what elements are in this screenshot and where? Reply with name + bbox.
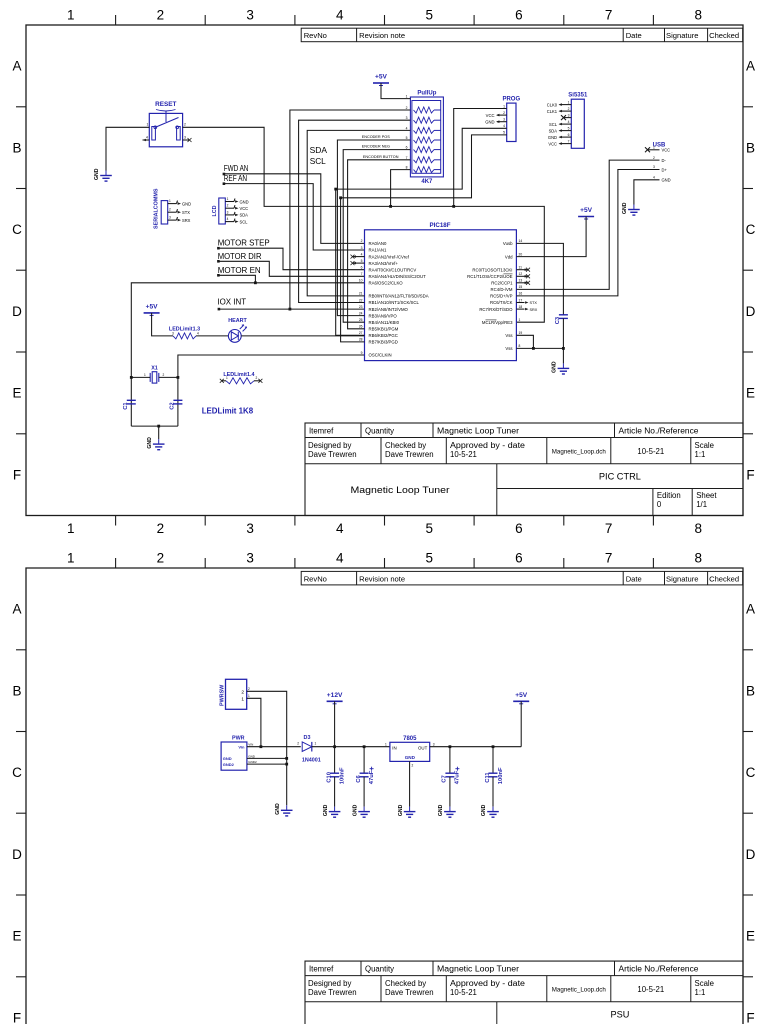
svg-text:Si5351: Si5351 bbox=[568, 93, 588, 99]
svg-text:VCC: VCC bbox=[662, 148, 671, 153]
svg-text:C1: C1 bbox=[123, 402, 129, 410]
svg-text:Vusb: Vusb bbox=[503, 241, 513, 246]
svg-text:Date: Date bbox=[626, 574, 642, 583]
svg-text:2: 2 bbox=[503, 111, 505, 115]
svg-text:4: 4 bbox=[146, 136, 148, 140]
svg-text:Article No./Reference: Article No./Reference bbox=[619, 964, 699, 973]
wire bbox=[492, 777, 494, 807]
svg-text:GND2: GND2 bbox=[248, 760, 257, 764]
svg-text:3: 3 bbox=[246, 8, 254, 23]
wire bbox=[430, 746, 522, 748]
svg-text:3: 3 bbox=[503, 118, 505, 122]
svg-text:RA5/AN4/HLVDIN/SS/C2OUT: RA5/AN4/HLVDIN/SS/C2OUT bbox=[369, 274, 427, 279]
svg-text:A: A bbox=[12, 59, 21, 74]
capacitor C7 bbox=[445, 772, 454, 774]
wire bbox=[334, 747, 336, 774]
svg-text:MOTOR EN: MOTOR EN bbox=[218, 265, 261, 275]
svg-text:LEDLimit 1K8: LEDLimit 1K8 bbox=[202, 405, 254, 415]
svg-text:2: 2 bbox=[241, 689, 244, 695]
svg-text:5: 5 bbox=[426, 521, 434, 536]
wire bbox=[241, 335, 364, 337]
svg-text:10-5-21: 10-5-21 bbox=[637, 985, 664, 994]
svg-text:GND2: GND2 bbox=[223, 762, 235, 767]
junction bbox=[177, 376, 180, 379]
wire bbox=[290, 110, 411, 309]
svg-text:GND: GND bbox=[248, 754, 256, 758]
svg-text:22: 22 bbox=[359, 298, 363, 302]
svg-text:A: A bbox=[746, 602, 755, 617]
svg-text:D: D bbox=[12, 304, 22, 319]
svg-text:RevNo: RevNo bbox=[304, 31, 327, 40]
svg-text:4: 4 bbox=[336, 521, 344, 536]
svg-text:7: 7 bbox=[406, 156, 408, 160]
svg-text:RC7/RX/DT/SDO: RC7/RX/DT/SDO bbox=[479, 307, 513, 312]
svg-text:C11: C11 bbox=[485, 772, 491, 783]
wire bbox=[516, 170, 659, 296]
junction bbox=[449, 745, 452, 748]
resistor network PullUp 4K7 bbox=[406, 90, 444, 185]
pin stub bbox=[143, 139, 150, 142]
svg-text:+5V: +5V bbox=[515, 692, 528, 699]
svg-text:RB4/AN11/KBI0: RB4/AN11/KBI0 bbox=[369, 320, 400, 325]
svg-text:4: 4 bbox=[227, 217, 229, 221]
ground bbox=[275, 803, 293, 816]
wire bbox=[218, 261, 364, 276]
svg-text:5: 5 bbox=[406, 136, 408, 140]
svg-text:RB5/KBI1/PGM: RB5/KBI1/PGM bbox=[369, 327, 399, 332]
svg-text:7: 7 bbox=[568, 139, 570, 143]
wire bbox=[492, 747, 494, 774]
junction bbox=[157, 425, 160, 428]
junction bbox=[289, 308, 292, 311]
svg-text:1: 1 bbox=[248, 694, 250, 698]
svg-text:1: 1 bbox=[169, 199, 171, 203]
svg-text:2: 2 bbox=[169, 208, 171, 212]
wire bbox=[334, 701, 336, 746]
wire bbox=[363, 747, 365, 774]
junction bbox=[363, 745, 366, 748]
svg-text:1: 1 bbox=[227, 197, 229, 201]
svg-text:100nF: 100nF bbox=[498, 767, 504, 784]
svg-text:SDA: SDA bbox=[240, 213, 249, 218]
junction bbox=[334, 188, 337, 191]
ground bbox=[481, 804, 499, 817]
svg-text:1: 1 bbox=[385, 743, 387, 747]
svg-text:2: 2 bbox=[412, 764, 414, 768]
svg-text:SCL: SCL bbox=[310, 156, 326, 166]
wire bbox=[183, 127, 545, 322]
svg-text:2: 2 bbox=[361, 239, 363, 243]
svg-text:1/1: 1/1 bbox=[696, 500, 707, 509]
svg-text:IOX INT: IOX INT bbox=[217, 297, 246, 307]
svg-text:2: 2 bbox=[184, 123, 186, 127]
svg-text:5: 5 bbox=[568, 126, 570, 130]
svg-text:RC1/T1OSI/CCP2/UOE: RC1/T1OSI/CCP2/UOE bbox=[467, 274, 513, 279]
svg-text:1: 1 bbox=[241, 696, 244, 702]
ground bbox=[622, 202, 640, 215]
capacitor C2 bbox=[173, 399, 182, 401]
svg-text:7: 7 bbox=[605, 551, 613, 566]
junction bbox=[333, 745, 336, 748]
svg-text:7: 7 bbox=[605, 8, 613, 23]
connector SERIALCOMMS bbox=[154, 188, 192, 229]
connector LCD bbox=[212, 197, 249, 224]
svg-text:3: 3 bbox=[433, 743, 435, 747]
svg-text:47uF: 47uF bbox=[455, 770, 461, 784]
svg-text:3: 3 bbox=[227, 210, 229, 214]
svg-text:Article No./Reference: Article No./Reference bbox=[619, 426, 699, 435]
svg-text:X1: X1 bbox=[151, 365, 158, 371]
svg-text:4: 4 bbox=[336, 551, 344, 566]
svg-text:C10: C10 bbox=[326, 772, 332, 783]
svg-text:E: E bbox=[746, 386, 755, 401]
svg-text:8: 8 bbox=[694, 551, 702, 566]
svg-text:1: 1 bbox=[67, 551, 75, 566]
wire bbox=[343, 150, 410, 323]
revision table bbox=[301, 571, 743, 585]
svg-text:Approved by - date: Approved by - date bbox=[450, 979, 525, 988]
svg-text:GND: GND bbox=[182, 201, 191, 206]
svg-text:Dave Trewren: Dave Trewren bbox=[385, 450, 434, 459]
wire bbox=[312, 746, 390, 748]
svg-text:SCL: SCL bbox=[240, 219, 249, 224]
svg-text:PIC CTRL: PIC CTRL bbox=[599, 471, 641, 481]
svg-text:28: 28 bbox=[359, 338, 363, 342]
wire bbox=[409, 761, 411, 806]
svg-text:Checked by: Checked by bbox=[385, 979, 426, 988]
svg-text:SDA: SDA bbox=[310, 145, 328, 155]
svg-text:5: 5 bbox=[361, 259, 363, 263]
wire bbox=[634, 180, 660, 205]
svg-text:GND: GND bbox=[548, 135, 557, 140]
wire bbox=[106, 127, 149, 170]
svg-text:VCC: VCC bbox=[548, 141, 557, 146]
svg-text:Approved by - date: Approved by - date bbox=[450, 441, 525, 450]
svg-text:Revision note: Revision note bbox=[359, 574, 405, 583]
svg-text:2: 2 bbox=[157, 551, 165, 566]
svg-text:Vss: Vss bbox=[505, 333, 512, 338]
svg-text:Date: Date bbox=[626, 31, 642, 40]
junction bbox=[452, 205, 455, 208]
svg-text:Checked: Checked bbox=[709, 574, 739, 583]
connector PWRSW bbox=[220, 679, 251, 709]
wire bbox=[516, 160, 659, 289]
svg-text:3: 3 bbox=[406, 116, 408, 120]
svg-text:7805: 7805 bbox=[403, 736, 417, 742]
svg-text:Dave Trewren: Dave Trewren bbox=[385, 988, 434, 997]
svg-text:Revision note: Revision note bbox=[359, 31, 405, 40]
svg-text:5: 5 bbox=[426, 8, 434, 23]
svg-text:1: 1 bbox=[226, 376, 228, 380]
svg-text:6: 6 bbox=[515, 551, 523, 566]
wire bbox=[158, 426, 160, 439]
wire bbox=[152, 313, 173, 336]
svg-text:6: 6 bbox=[515, 521, 523, 536]
svg-text:Signature: Signature bbox=[666, 574, 699, 583]
svg-text:1: 1 bbox=[67, 8, 75, 23]
svg-text:21: 21 bbox=[359, 292, 363, 296]
svg-text:6: 6 bbox=[515, 8, 523, 23]
svg-text:RB0/INT0/AN12/FLT0/SDI/SDA: RB0/INT0/AN12/FLT0/SDI/SDA bbox=[369, 294, 429, 299]
junction bbox=[389, 205, 392, 208]
svg-text:GND: GND bbox=[405, 755, 416, 760]
svg-text:GND: GND bbox=[485, 120, 494, 125]
connector USB bbox=[645, 142, 671, 182]
wire bbox=[247, 698, 261, 746]
svg-text:10-5-21: 10-5-21 bbox=[637, 447, 664, 456]
svg-text:RB2/AN8/INT2/VMO: RB2/AN8/INT2/VMO bbox=[369, 307, 409, 312]
wire bbox=[196, 335, 229, 337]
svg-text:SERIALCOMMS: SERIALCOMMS bbox=[154, 188, 160, 229]
svg-text:PSU: PSU bbox=[610, 1009, 629, 1019]
svg-text:12: 12 bbox=[519, 272, 523, 276]
svg-text:Vin: Vin bbox=[238, 745, 245, 750]
svg-text:2: 2 bbox=[568, 107, 570, 111]
svg-text:15: 15 bbox=[519, 285, 523, 289]
svg-text:B: B bbox=[746, 140, 755, 155]
svg-text:IN: IN bbox=[392, 745, 396, 750]
svg-text:RESET: RESET bbox=[155, 101, 176, 108]
svg-text:1: 1 bbox=[144, 373, 146, 377]
IC U1 PIC18F bbox=[359, 222, 523, 361]
junction bbox=[254, 281, 257, 284]
svg-text:PWR: PWR bbox=[232, 736, 245, 742]
wire bbox=[337, 140, 410, 316]
svg-text:RA2/AN2/Vref-/CVref: RA2/AN2/Vref-/CVref bbox=[369, 254, 410, 259]
svg-text:F: F bbox=[746, 467, 754, 482]
svg-text:2: 2 bbox=[256, 376, 258, 380]
svg-text:Scale: Scale bbox=[695, 979, 715, 988]
svg-text:SRX: SRX bbox=[530, 308, 538, 312]
svg-text:OSC/CLKIN: OSC/CLKIN bbox=[369, 353, 392, 358]
svg-text:6: 6 bbox=[406, 146, 408, 150]
svg-text:F: F bbox=[746, 1010, 754, 1024]
junction bbox=[130, 376, 133, 379]
connector PROG bbox=[502, 97, 520, 142]
wire bbox=[562, 318, 564, 363]
svg-text:RB3/AN9/VPO: RB3/AN9/VPO bbox=[369, 313, 398, 318]
wire bbox=[247, 691, 287, 805]
svg-text:2: 2 bbox=[227, 204, 229, 208]
svg-text:2: 2 bbox=[406, 106, 408, 110]
wire bbox=[247, 757, 287, 759]
svg-text:16: 16 bbox=[519, 292, 523, 296]
svg-text:Vdd: Vdd bbox=[505, 254, 513, 259]
wire bbox=[219, 308, 365, 310]
wire bbox=[307, 130, 410, 296]
svg-text:LEDLimit1.4: LEDLimit1.4 bbox=[223, 372, 254, 378]
svg-text:MOTOR DIR: MOTOR DIR bbox=[218, 251, 262, 261]
junction bbox=[532, 347, 535, 350]
page frame bbox=[26, 568, 743, 1024]
svg-text:0: 0 bbox=[657, 500, 662, 509]
svg-text:C: C bbox=[746, 222, 756, 237]
svg-text:10: 10 bbox=[359, 279, 363, 283]
svg-text:RB6/KBI2/PGC: RB6/KBI2/PGC bbox=[369, 333, 398, 338]
wire bbox=[516, 243, 563, 314]
svg-text:4: 4 bbox=[568, 120, 570, 124]
svg-text:27: 27 bbox=[359, 331, 363, 335]
wire bbox=[299, 120, 411, 302]
svg-text:RA1/AN1: RA1/AN1 bbox=[369, 248, 388, 253]
svg-text:2: 2 bbox=[157, 8, 165, 23]
svg-text:C: C bbox=[746, 765, 756, 780]
svg-text:F: F bbox=[13, 467, 21, 482]
ground bbox=[352, 804, 370, 817]
svg-text:RB1/AN10/INT1/SCK/SCL: RB1/AN10/INT1/SCK/SCL bbox=[369, 300, 420, 305]
svg-text:4: 4 bbox=[197, 332, 199, 336]
svg-text:A: A bbox=[12, 602, 21, 617]
svg-text:+5V: +5V bbox=[580, 207, 593, 214]
svg-text:1:1: 1:1 bbox=[695, 450, 706, 459]
svg-text:6: 6 bbox=[568, 133, 570, 137]
junction bbox=[562, 347, 565, 350]
ground bbox=[94, 168, 112, 181]
page frame bbox=[26, 25, 743, 516]
wire bbox=[336, 128, 507, 335]
LED HEART bbox=[228, 318, 247, 342]
svg-text:8: 8 bbox=[694, 8, 702, 23]
svg-text:PROG: PROG bbox=[502, 97, 520, 103]
svg-text:4: 4 bbox=[653, 176, 655, 180]
svg-text:Magnetic Loop Tuner: Magnetic Loop Tuner bbox=[437, 964, 519, 973]
svg-text:VCC: VCC bbox=[240, 206, 249, 211]
svg-text:14: 14 bbox=[519, 239, 523, 243]
svg-text:A: A bbox=[746, 59, 755, 74]
svg-text:D: D bbox=[12, 847, 22, 862]
svg-text:RC0/T1OSO/T13CKI: RC0/T1OSO/T13CKI bbox=[472, 267, 512, 272]
svg-text:+12V: +12V bbox=[327, 692, 343, 699]
ground bbox=[552, 361, 570, 374]
svg-text:24: 24 bbox=[359, 311, 363, 315]
svg-text:HEART: HEART bbox=[228, 318, 247, 324]
svg-text:1N4001: 1N4001 bbox=[302, 758, 321, 764]
svg-text:GND: GND bbox=[662, 178, 671, 183]
svg-text:LCD: LCD bbox=[212, 205, 218, 216]
svg-text:20: 20 bbox=[519, 252, 523, 256]
svg-text:Signature: Signature bbox=[666, 31, 699, 40]
svg-text:6: 6 bbox=[361, 266, 363, 270]
svg-text:B: B bbox=[12, 683, 21, 698]
svg-text:CLK0: CLK0 bbox=[547, 102, 558, 107]
svg-text:SCL: SCL bbox=[549, 122, 558, 127]
capacitor C10 bbox=[330, 772, 339, 774]
capacitor C1 bbox=[127, 399, 136, 401]
svg-text:47uF: 47uF bbox=[369, 770, 375, 784]
wire bbox=[218, 275, 255, 283]
svg-text:Edition: Edition bbox=[657, 491, 681, 500]
ground bbox=[438, 804, 456, 817]
svg-text:B: B bbox=[746, 683, 755, 698]
svg-text:MOTOR STEP: MOTOR STEP bbox=[218, 238, 270, 248]
svg-text:8: 8 bbox=[519, 344, 521, 348]
wire bbox=[516, 217, 586, 257]
svg-text:Quantity: Quantity bbox=[365, 964, 394, 973]
svg-text:Magnetic_Loop.dch: Magnetic_Loop.dch bbox=[552, 449, 607, 456]
svg-text:23: 23 bbox=[359, 305, 363, 309]
capacitor C11 bbox=[489, 772, 498, 774]
svg-text:C: C bbox=[12, 765, 22, 780]
svg-text:1: 1 bbox=[147, 123, 149, 127]
svg-text:3: 3 bbox=[568, 113, 570, 117]
svg-text:7: 7 bbox=[605, 521, 613, 536]
svg-text:RA4/T0CKI/C1OUT/RCV: RA4/T0CKI/C1OUT/RCV bbox=[369, 267, 417, 272]
wire bbox=[247, 746, 301, 748]
wire bbox=[334, 777, 336, 807]
svg-text:Designed by: Designed by bbox=[308, 441, 351, 450]
svg-text:RC2/CCP1: RC2/CCP1 bbox=[491, 281, 513, 286]
svg-text:2: 2 bbox=[653, 156, 655, 160]
wire bbox=[218, 248, 364, 270]
svg-text:1: 1 bbox=[503, 104, 505, 108]
svg-text:RB7/KBI3/PGD: RB7/KBI3/PGD bbox=[369, 340, 398, 345]
svg-text:RA3/AN3/Vref+: RA3/AN3/Vref+ bbox=[369, 261, 399, 266]
wire bbox=[224, 184, 365, 250]
svg-text:VIN: VIN bbox=[248, 743, 253, 747]
svg-text:3: 3 bbox=[361, 246, 363, 250]
svg-text:E: E bbox=[12, 386, 21, 401]
svg-text:3: 3 bbox=[653, 165, 655, 169]
svg-text:2: 2 bbox=[157, 521, 165, 536]
svg-text:Itemref: Itemref bbox=[309, 426, 334, 435]
svg-text:Designed by: Designed by bbox=[308, 979, 351, 988]
svg-text:17: 17 bbox=[519, 298, 523, 302]
svg-text:VCC: VCC bbox=[486, 113, 495, 118]
crystal X1 bbox=[144, 365, 165, 383]
regulator U2 7805 bbox=[385, 736, 435, 768]
svg-text:Magnetic_Loop.dch: Magnetic_Loop.dch bbox=[552, 987, 607, 994]
svg-text:4: 4 bbox=[361, 252, 363, 256]
wire bbox=[520, 701, 522, 746]
svg-text:GND: GND bbox=[240, 199, 249, 204]
junction bbox=[492, 745, 495, 748]
svg-text:D: D bbox=[746, 847, 756, 862]
svg-text:7: 7 bbox=[361, 272, 363, 276]
svg-text:C3: C3 bbox=[555, 316, 561, 324]
junction bbox=[285, 763, 288, 766]
svg-text:E: E bbox=[746, 929, 755, 944]
diode D3 1N4001 bbox=[297, 735, 321, 764]
svg-text:5: 5 bbox=[426, 551, 434, 566]
svg-text:10-5-21: 10-5-21 bbox=[450, 988, 477, 997]
ground bbox=[323, 804, 341, 817]
pin stub bbox=[183, 138, 192, 142]
svg-text:OUT: OUT bbox=[418, 745, 428, 750]
svg-text:4: 4 bbox=[503, 124, 505, 128]
wire bbox=[391, 170, 411, 207]
switch RESET bbox=[146, 101, 186, 147]
svg-text:PullUp: PullUp bbox=[417, 90, 436, 96]
svg-text:2: 2 bbox=[248, 687, 250, 691]
wire bbox=[449, 777, 451, 807]
svg-text:RC5/D+/VP: RC5/D+/VP bbox=[490, 294, 512, 299]
svg-text:3: 3 bbox=[169, 216, 171, 220]
wire bbox=[363, 777, 365, 807]
svg-text:100nF: 100nF bbox=[339, 767, 345, 784]
svg-text:D+: D+ bbox=[662, 167, 668, 172]
module PWR bbox=[221, 736, 257, 771]
svg-text:C2: C2 bbox=[170, 402, 176, 409]
svg-text:25: 25 bbox=[359, 318, 363, 322]
wire bbox=[449, 747, 451, 774]
wire bbox=[454, 109, 507, 207]
wire bbox=[381, 83, 410, 99]
svg-text:3: 3 bbox=[246, 551, 254, 566]
wire bbox=[131, 376, 150, 378]
wire bbox=[516, 335, 533, 348]
svg-text:Checked by: Checked by bbox=[385, 441, 426, 450]
svg-text:2: 2 bbox=[297, 742, 299, 746]
